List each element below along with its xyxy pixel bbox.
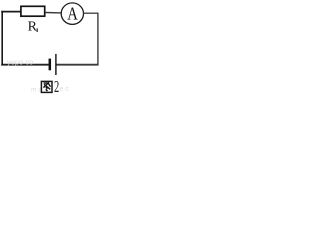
svg-text:yepo co: yepo co <box>7 58 33 67</box>
wire right vertical <box>97 13 99 66</box>
wire left vertical <box>1 11 3 66</box>
wire ammeter to right corner <box>83 12 98 14</box>
svg-text:m a: m a <box>31 87 42 94</box>
wire bottom right <box>56 64 98 66</box>
wire resistor to ammeter <box>46 12 62 14</box>
wire bottom left <box>1 64 48 66</box>
ammeter U1 circle <box>61 3 83 25</box>
svg-text:A: A <box>67 3 78 24</box>
battery positive plate long <box>55 54 57 75</box>
svg-text:R: R <box>28 20 38 35</box>
wire top-left horizontal <box>1 11 20 13</box>
label R1 subscript 1 <box>36 28 38 31</box>
battery negative plate short thick <box>49 59 52 71</box>
label figure glyph TU (drawn CJK) <box>41 81 52 92</box>
resistor R1 <box>21 6 45 16</box>
svg-text:e c: e c <box>60 86 70 93</box>
svg-text:2: 2 <box>54 78 59 95</box>
